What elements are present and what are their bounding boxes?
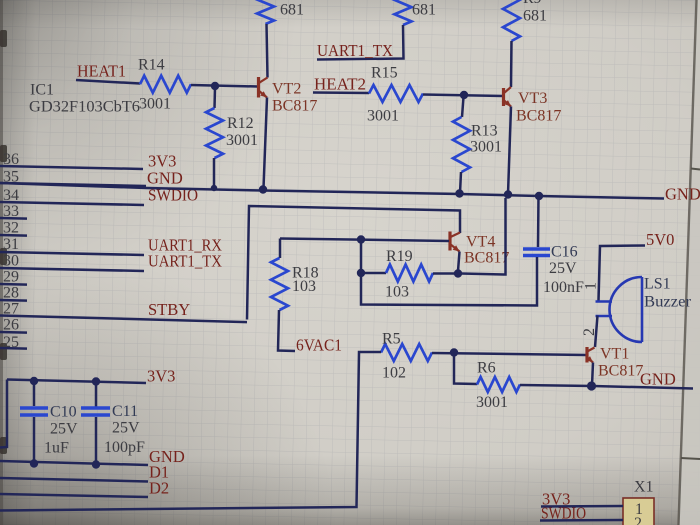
- svg-text:31: 31: [3, 236, 19, 253]
- svg-text:HEAT2: HEAT2: [314, 75, 366, 94]
- IC1 pin 35: [0, 169, 146, 187]
- net label 6VAC1: [296, 336, 342, 355]
- svg-text:UART1_TX: UART1_TX: [317, 41, 393, 60]
- net label UART1_TX (pin 30): [148, 252, 222, 271]
- wire R13 to GND rail: [460, 172, 461, 193]
- svg-text:102: 102: [382, 365, 406, 382]
- svg-text:1uF: 1uF: [44, 440, 69, 457]
- svg-text:33: 33: [3, 203, 19, 220]
- svg-text:R15: R15: [371, 65, 398, 82]
- svg-text:C11: C11: [112, 403, 138, 420]
- svg-text:GND: GND: [665, 185, 700, 204]
- svg-text:R9: R9: [523, 0, 542, 7]
- svg-text:BC817: BC817: [598, 363, 643, 380]
- svg-text:30: 30: [3, 253, 19, 270]
- wire C16 bottom to R19 node: [361, 257, 537, 306]
- resistor R6: [476, 360, 520, 412]
- buzzer pin number 1: [583, 282, 600, 290]
- connector X1 designator: [634, 479, 654, 496]
- svg-text:26: 26: [3, 317, 19, 334]
- wire STBY riser to VT4 collector: [247, 206, 460, 320]
- net label 3V3 (bottom left): [147, 367, 175, 386]
- transistor VT1: [586, 346, 643, 380]
- svg-text:3001: 3001: [226, 132, 258, 149]
- svg-text:6VAC1: 6VAC1: [296, 336, 342, 355]
- IC1 pin 33: [0, 203, 27, 220]
- node C11 bottom: [92, 460, 100, 468]
- svg-text:103: 103: [292, 278, 316, 295]
- svg-text:3001: 3001: [139, 96, 171, 113]
- wire VT1 emitter down: [592, 363, 593, 386]
- IC1 pin 32: [0, 220, 27, 237]
- wire R5 left down to bottom rail: [0, 352, 381, 511]
- wire pin row D2: [0, 494, 148, 497]
- wire R18 vertical top: [279, 239, 282, 259]
- wire R18 to 6VAC1: [278, 310, 295, 351]
- svg-text:36: 36: [3, 151, 19, 168]
- IC IC1 part number GD32F103CbT6: [29, 99, 140, 116]
- svg-text:25: 25: [3, 334, 19, 351]
- wire junction down to R6: [454, 354, 477, 384]
- capacitor C10: [20, 381, 78, 464]
- svg-text:29: 29: [3, 269, 19, 286]
- node R15/R13/VT3 junction: [460, 91, 468, 99]
- IC1 pin 30: [0, 253, 144, 272]
- resistor 681 (top left, cut off): [257, 0, 304, 24]
- svg-text:27: 27: [3, 301, 19, 318]
- svg-text:R14: R14: [138, 57, 165, 74]
- resistor 681 (top middle, cut off): [395, 0, 437, 25]
- svg-text:25V: 25V: [50, 421, 78, 438]
- node R19 left junction: [357, 269, 365, 277]
- svg-text:BC817: BC817: [272, 98, 317, 115]
- net label UART1_TX (top): [317, 41, 393, 60]
- svg-text:1: 1: [583, 282, 600, 290]
- node R12/GND: [211, 185, 217, 191]
- svg-text:GND: GND: [640, 370, 676, 389]
- buzzer LS1: [596, 276, 692, 343]
- svg-text:BC817: BC817: [464, 250, 509, 267]
- wire riser between base wire and R19: [360, 240, 363, 272]
- IC1 pin 26: [0, 317, 27, 334]
- net label D2: [149, 479, 169, 498]
- wire GND row (bottom left): [0, 461, 148, 465]
- svg-text:2: 2: [634, 515, 642, 525]
- resistor R13: [453, 117, 502, 172]
- svg-text:GD32F103CbT6: GD32F103CbT6: [29, 99, 140, 116]
- svg-text:32: 32: [3, 220, 19, 237]
- svg-text:3001: 3001: [367, 108, 399, 125]
- IC1 pin 31: [0, 236, 144, 255]
- wire 681 down to UART1_TX: [317, 25, 404, 60]
- IC IC1 designator: [30, 82, 54, 99]
- wire VT3 emitter to GND: [508, 107, 511, 195]
- svg-text:R13: R13: [471, 123, 498, 140]
- svg-text:D2: D2: [149, 479, 169, 498]
- net label HEAT2: [314, 75, 366, 94]
- svg-text:34: 34: [3, 187, 19, 204]
- IC1 pin 25: [0, 334, 27, 351]
- capacitor C11: [81, 382, 145, 465]
- svg-text:IC1: IC1: [30, 82, 54, 99]
- wire R5 right to VT1 base: [432, 353, 586, 355]
- svg-text:Buzzer: Buzzer: [644, 294, 692, 311]
- resistor R19: [385, 248, 433, 301]
- node C10 top: [30, 377, 38, 385]
- svg-text:25V: 25V: [549, 260, 577, 277]
- net label HEAT1: [77, 62, 126, 81]
- screen left edge: [0, 0, 7, 525]
- svg-text:LS1: LS1: [644, 276, 671, 293]
- node R13/GND: [455, 189, 463, 197]
- wire 3V3 rail (bottom left): [7, 380, 146, 384]
- transistor VT3: [504, 87, 562, 125]
- resistor R5: [381, 331, 432, 382]
- IC1 pin 34: [0, 187, 144, 205]
- svg-text:VT1: VT1: [600, 346, 629, 363]
- wire 5V0 to buzzer pin 1: [599, 246, 646, 302]
- net label GND (right): [665, 185, 700, 204]
- svg-text:C10: C10: [50, 404, 77, 421]
- net label STBY (pin 27): [148, 300, 190, 319]
- wire 3V3 left drop to edge: [0, 380, 7, 448]
- svg-text:25V: 25V: [112, 420, 140, 437]
- wire VT2 emitter to GND: [264, 98, 268, 189]
- net label 3V3 (pin 36): [148, 152, 176, 171]
- resistor R14: [138, 57, 191, 113]
- net label GND (bottom right): [640, 370, 676, 389]
- wire R15 to VT3 base: [423, 95, 503, 97]
- svg-text:681: 681: [523, 8, 547, 25]
- wire VT4 emitter node to GND riser: [461, 198, 506, 275]
- net label D1: [149, 463, 169, 482]
- wire R12 to GND rail: [213, 158, 216, 189]
- resistor R9 681 (top right, cut off): [503, 0, 547, 41]
- node C11 top: [92, 377, 100, 385]
- resistor R18: [271, 258, 319, 310]
- svg-text:X1: X1: [634, 479, 654, 496]
- svg-text:R19: R19: [386, 248, 413, 265]
- transistor VT2: [259, 77, 318, 115]
- svg-text:C16: C16: [551, 244, 578, 261]
- net label 5V0: [646, 230, 674, 249]
- svg-text:BC817: BC817: [516, 108, 561, 125]
- wire R19 right to VT4 emitter node: [433, 272, 456, 275]
- svg-text:R5: R5: [382, 331, 401, 348]
- wire C16 top to GND rail: [537, 196, 540, 247]
- wire buzzer pin 2 to VT1 collector: [595, 316, 598, 348]
- wire R18 top / VT4 base wire: [280, 239, 449, 242]
- wire 3V3 to X1 pin 1: [541, 505, 623, 508]
- IC1 pin 27: [0, 301, 247, 323]
- node VT1 emitter/GND: [587, 381, 596, 390]
- svg-text:3001: 3001: [470, 139, 502, 156]
- wire pin row D1: [0, 478, 148, 482]
- net label 3V3 (X1): [542, 490, 570, 509]
- node VT3/VT4 emitters on GND: [504, 190, 512, 198]
- svg-text:28: 28: [3, 285, 19, 302]
- wire HEAT1 to R14: [76, 80, 140, 84]
- node R5/R6 junction: [450, 348, 458, 356]
- svg-text:100pF: 100pF: [104, 439, 145, 456]
- connector X1 body: [623, 498, 654, 525]
- capacitor C16: [523, 244, 584, 297]
- node R14/R12/VT2 junction: [211, 82, 219, 90]
- node C10 bottom: [30, 459, 38, 467]
- svg-text:3001: 3001: [476, 394, 508, 411]
- svg-text:STBY: STBY: [148, 300, 190, 319]
- svg-text:UART1_TX: UART1_TX: [148, 252, 222, 271]
- wire R19 left: [361, 272, 386, 275]
- wire VT4 emitter down: [458, 252, 460, 272]
- node C16/GND: [535, 192, 543, 200]
- screen right edge: [679, 0, 700, 525]
- net label GND (pin 35): [147, 169, 183, 188]
- svg-text:681: 681: [412, 2, 436, 19]
- node VT4 emitter junction: [454, 269, 462, 277]
- svg-text:HEAT1: HEAT1: [77, 62, 126, 81]
- node VT2 emitter/GND: [259, 185, 267, 193]
- wire SWDIO to X1 pin 2: [540, 519, 623, 522]
- IC1 pin 28: [0, 285, 27, 302]
- net label GND (bottom left): [149, 447, 185, 466]
- IC1 pin 29: [0, 269, 27, 286]
- wire 681 to VT2 collector: [267, 24, 268, 78]
- svg-text:100nF: 100nF: [543, 279, 584, 296]
- wire R6 to VT1 emitter node / GND: [520, 385, 693, 389]
- buzzer pin number 2: [581, 328, 598, 336]
- svg-text:VT4: VT4: [466, 234, 495, 251]
- svg-text:103: 103: [385, 284, 409, 301]
- svg-text:681: 681: [280, 2, 304, 19]
- wire R9 to VT3 collector: [510, 41, 513, 87]
- svg-text:R12: R12: [227, 115, 254, 132]
- node base wire / R19 riser: [357, 235, 365, 243]
- transistor VT4: [450, 232, 509, 267]
- svg-text:5V0: 5V0: [646, 230, 674, 249]
- net label UART1_RX (pin 31): [148, 236, 222, 255]
- svg-text:3V3: 3V3: [147, 367, 175, 386]
- IC1 pin 36: [0, 151, 143, 169]
- resistor R15: [367, 65, 423, 125]
- svg-text:VT3: VT3: [518, 90, 547, 107]
- wire junction to R12: [213, 88, 216, 109]
- resistor R12: [206, 108, 258, 158]
- svg-text:R6: R6: [477, 360, 496, 377]
- wire junction to R13: [462, 97, 464, 117]
- wire R14 to VT2 base: [191, 85, 258, 87]
- net label SWDIO (pin 34): [148, 186, 198, 205]
- wire HEAT2 to R15: [313, 91, 369, 94]
- svg-text:VT2: VT2: [272, 81, 301, 98]
- net label SWDIO (X1): [541, 504, 586, 523]
- wire GND rail: [0, 183, 664, 199]
